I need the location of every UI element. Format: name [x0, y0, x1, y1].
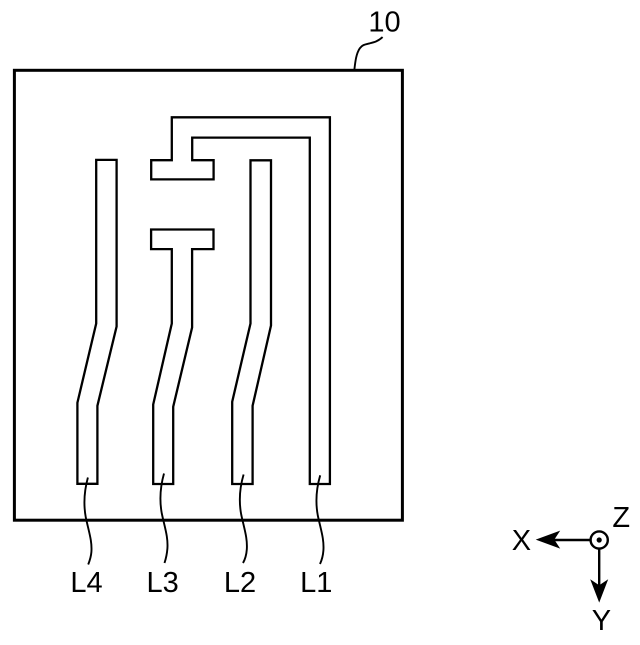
svg-text:X: X	[512, 525, 531, 557]
conductor L4	[77, 160, 116, 484]
conductor L1 with top pad	[151, 117, 330, 484]
X axis line	[554, 539, 590, 541]
leader to label L4	[84, 478, 91, 565]
leader to label L2	[240, 475, 247, 564]
substrate 10	[14, 70, 402, 520]
leader to label L3	[160, 474, 167, 564]
svg-text:L4: L4	[70, 567, 102, 599]
svg-text:Y: Y	[592, 605, 611, 637]
leader to label L1	[316, 475, 323, 564]
conductor L2	[232, 160, 271, 484]
svg-text:10: 10	[368, 6, 400, 38]
leader to label 10	[354, 37, 382, 69]
Y axis line	[598, 549, 600, 586]
Y arrowhead	[590, 579, 608, 602]
svg-text:L1: L1	[300, 567, 332, 599]
conductor L3 with T pad	[151, 230, 213, 485]
svg-text:Z: Z	[612, 502, 630, 534]
origin dot	[597, 537, 602, 542]
svg-text:L3: L3	[146, 567, 178, 599]
svg-text:L2: L2	[224, 567, 256, 599]
X arrowhead	[536, 531, 561, 549]
coordinate origin circle (Z axis out of plane)	[591, 531, 608, 548]
